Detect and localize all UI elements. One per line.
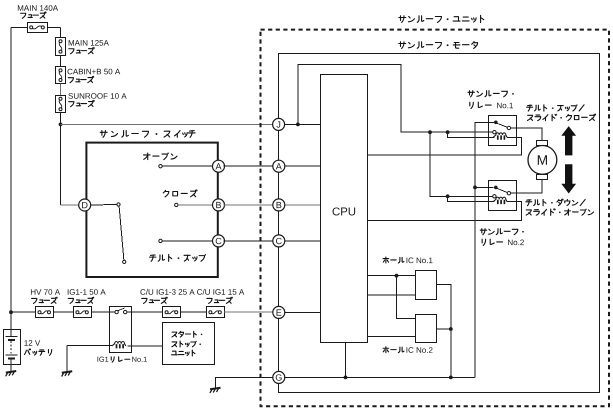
junction J-branch [59,123,63,127]
label C/U IG1 15 A fuse [197,289,244,304]
wire between MAIN 125A and CABIN+B fuses [60,55,62,67]
label sunroof relay No.2 [480,229,524,246]
label hall IC No.2 [383,347,432,353]
label MAIN 125A fuse [69,40,109,54]
wire IG1 relay coil to ground [67,346,113,372]
contact open [159,165,162,168]
wire HV fuse to IG1-1 fuse [53,311,73,313]
label sunroof switch (sanrufu switchi) [100,131,195,138]
node C switch [213,235,225,247]
wire G to external ground [215,377,273,388]
label HV 70 A fuse [31,289,60,303]
ground battery [6,371,17,376]
wire between CABIN+B and SUNROOF fuses [60,84,62,96]
relay2 NO contact [507,192,510,195]
label tilt-up (chiruto appu) [149,254,206,261]
box start-stop unit [163,323,215,365]
wire hall IC1 output [436,284,451,377]
wire switch B to unit B [224,204,274,206]
wire from fuse MAIN 140A to fuse rail [47,27,61,37]
ground IG1 relay [62,371,73,376]
fuse SUNROOF 10 A [56,96,66,113]
ground unit [210,388,221,393]
label tilt-up slide-close [527,104,596,120]
label open (opun) [144,153,177,160]
box sunroof motor [279,54,600,393]
wire connector C to CPU [284,240,321,242]
wire bus battery to HV fuse [11,311,35,313]
label SUNROOF 10 A fuse [68,93,126,107]
wire C/U IG1 fuse to connector E [224,311,274,313]
relay2 NC contact [493,195,496,198]
junction B+ coil1 feed [446,130,450,134]
dashed box sunroof unit [261,30,610,407]
wire IG1 relay to C/U IG1-3 fuse [127,311,162,313]
fuse C/U IG1-3 25 A [163,307,181,318]
node E [273,306,285,318]
battery internals [6,312,18,371]
wire connector B to CPU [284,204,321,206]
wire connector A to CPU [284,165,321,167]
wire switch C to unit C [224,240,274,242]
label C/U IG1-3 25 A fuse [140,289,194,304]
label start-stop unit [172,331,203,356]
fuse IG1-1 50 A [74,307,92,318]
node B switch [213,199,225,211]
relay1 arm [496,123,507,127]
wire connector J to CPU [284,123,321,125]
wire ground rail G [284,376,475,378]
wire relay1 to motor top [511,128,542,140]
junction B+ coil2 feed [446,194,450,198]
junction relay2 common [473,186,477,190]
wire coil2 feed [448,196,495,201]
switch arm pivot [117,203,120,206]
motor M [528,146,557,175]
label close (kurozu) [163,190,197,197]
node G [273,371,285,383]
fuse MAIN 140A [28,23,48,33]
switch box sunroof switch [86,143,217,277]
label MAIN 140A fuse [18,5,58,18]
wire relay2 common [475,186,494,188]
wire to switch node D [61,204,80,206]
switch arm end contact [123,260,126,263]
wire IG1 relay coil to start-stop unit [128,345,163,347]
label tilt-down slide-open [526,199,594,215]
wire CPU ground drop [345,343,347,378]
label hall IC No.1 [383,257,432,263]
relay box sunroof relay No.1 [489,116,517,146]
junction B+ at relay drop [428,130,432,134]
wire relay2 to motor bottom [511,180,542,194]
relay box IG1 relay No.1 [110,307,132,353]
wire relay commons to ground rail [475,122,494,377]
wire CPU to hall IC2 pin2 [368,335,416,337]
wire switch A to unit A [224,165,274,167]
arrow up tilt-up/slide-close [561,126,576,155]
relay1 NO contact [507,126,510,129]
label CABIN+B 50 A fuse [68,69,121,83]
wire B+ over-route to relays [298,65,493,133]
label sunroof relay No.1 [468,91,514,109]
relay2 coil [493,197,507,204]
relay2 arm [496,188,507,192]
junction J B+ branch [296,123,300,127]
node B unit [273,199,285,211]
wire IG1-1 fuse to IG1 relay [91,311,115,313]
CPU box [321,75,368,343]
contact tilt-up [159,239,162,242]
fuse C/U IG1 15 A [207,307,225,318]
wire coil2 return to CPU [368,202,522,221]
label 12 V battery [24,340,51,355]
relay1 common contact [494,121,498,125]
switch arm [119,206,124,260]
wire left battery rail [10,27,12,312]
motor terminal top [537,141,548,146]
junction hall IC2 output [449,327,453,331]
wire node D to pivot [90,204,117,207]
wire open contact to node A [162,165,213,167]
IG1 relay contacts [115,308,127,314]
wire CPU to hall IC1 pin1 [368,275,416,277]
wire connector E to CPU [284,311,321,313]
wire hall IC2 output [436,328,451,330]
node J [273,118,285,130]
wire B+ branch down to relay2 [430,132,493,196]
motor terminal bottom [537,175,548,180]
box hall IC No.2 [416,315,437,343]
label sunroof unit [399,15,484,22]
label IG1-1 50 A fuse [68,289,106,303]
fuse HV 70 A [36,307,54,318]
fuse CABIN+B 50 A [56,67,66,84]
wire SUNROOF fuse down to node D branch [60,113,62,205]
wire CPU to hall IC1 pin2 [368,294,416,296]
node C unit [273,235,285,247]
relay1 NC contact [493,131,496,134]
node A switch [213,160,225,172]
IG1 relay coil [112,342,126,349]
relay2 common contact [494,186,498,190]
wire coil1 return to CPU [368,137,522,155]
node A unit [273,160,285,172]
junction battery rail [9,310,13,314]
battery 12V [4,330,21,365]
relay box sunroof relay No.2 [489,181,517,211]
wire to connector J [61,123,274,125]
wire hall feed to hall IC2 pin1 [397,276,416,319]
junction hall ground [449,376,453,380]
wire tilt-up contact to node C [162,240,213,242]
wire close contact to node B [178,204,213,206]
wire C/U IG1-3 fuse to C/U IG1 fuse [180,311,206,313]
box hall IC No.1 [416,271,437,300]
wire coil1 feed [448,132,495,137]
arrow down tilt-down/slide-open [561,164,576,193]
label sunroof motor [399,42,478,49]
junction hall feed [395,274,399,278]
contact close [175,203,178,206]
label IG1 relay No.1 [97,357,146,363]
fuse MAIN 125A [56,38,66,56]
node D [79,199,91,211]
junction CPU ground [344,376,348,380]
wire from fuse MAIN 140A to left rail [11,26,27,28]
relay1 coil [493,133,507,140]
